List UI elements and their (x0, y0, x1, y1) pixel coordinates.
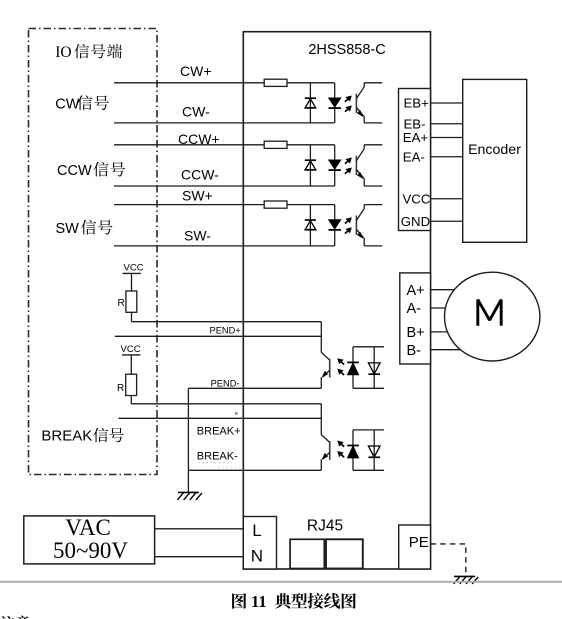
svg-text:BREAK-: BREAK- (197, 451, 238, 463)
svg-text:L: L (252, 521, 261, 540)
label CW- (182, 104, 210, 120)
LED CCW optocoupler input (329, 145, 341, 186)
svg-text:IO: IO (55, 44, 71, 61)
wire SW+ (114, 204, 335, 206)
cut-off text 注意 (0, 616, 29, 619)
RJ45 port 2 (326, 539, 363, 568)
resistor CCW input (264, 141, 287, 148)
pin label A- (407, 301, 422, 317)
label IO信号端 (55, 44, 122, 61)
terminal block encoder pins (399, 89, 431, 231)
wire VCC to encoder (431, 198, 463, 200)
dotted underline artifact (198, 463, 242, 468)
wire N (155, 556, 244, 558)
resistor R PEND pull-up (126, 291, 137, 312)
wire PEND+ (115, 335, 321, 337)
svg-text:A+: A+ (407, 283, 425, 299)
RJ45 port 1 (290, 539, 324, 568)
svg-text:R: R (117, 383, 124, 394)
VAC supply box (24, 516, 155, 564)
wire CW+ (114, 82, 335, 84)
svg-text:Encoder: Encoder (468, 142, 521, 158)
svg-text:PEND+: PEND+ (210, 325, 241, 335)
diode CW reverse-protection (305, 83, 317, 123)
wire EA- to encoder (431, 156, 463, 158)
encoder box (463, 79, 527, 242)
svg-text:VCC: VCC (403, 191, 431, 206)
svg-text:VAC: VAC (65, 515, 111, 540)
label CCW信号 (57, 162, 125, 179)
label SW- (184, 228, 211, 244)
terminal block L/N (243, 517, 276, 570)
wire R1 to PEND opto collector (132, 312, 322, 321)
light arrows CW optocoupler (345, 96, 352, 112)
light arrows PEND output optocoupler (337, 358, 344, 375)
label RJ45 (307, 518, 343, 535)
phototransistor CCW optocoupler (356, 145, 382, 186)
wire ground bus (187, 388, 189, 492)
pin label B- (407, 343, 422, 359)
LED BREAK output optocoupler (347, 430, 359, 470)
LED PEND output optocoupler (347, 347, 359, 389)
LED CW optocoupler input (329, 83, 341, 123)
pin label B+ (407, 325, 425, 341)
wire CCW+ (114, 144, 335, 146)
svg-text:2HSS858-C: 2HSS858-C (308, 42, 385, 58)
pin label VCC (403, 191, 431, 206)
diode PEND output protection (368, 347, 380, 389)
svg-text:EA-: EA- (403, 149, 425, 164)
pin label PE (409, 534, 429, 551)
pin label EB- (404, 116, 426, 131)
wire L (155, 528, 244, 530)
light arrows CCW optocoupler (345, 158, 352, 174)
svg-text:EB-: EB- (404, 116, 426, 131)
svg-text:BREAK+: BREAK+ (197, 426, 241, 438)
separator rule (0, 581, 562, 583)
wire PE to earth (dashed) (431, 544, 466, 576)
svg-text:EB+: EB+ (404, 96, 430, 111)
diode CCW reverse-protection (305, 145, 317, 186)
IO signal-source box (dash-dot border) (29, 29, 158, 475)
VCC symbol (PEND pull-up) (123, 263, 144, 292)
stray arrow artifact (235, 412, 239, 416)
svg-text:A-: A- (407, 301, 422, 317)
wire BREAK output rails (353, 430, 384, 470)
svg-text:BREAK: BREAK (41, 428, 92, 445)
light arrows SW optocoupler (345, 217, 352, 233)
label 2HSS858-C (308, 42, 385, 58)
phototransistor CW optocoupler (356, 83, 382, 123)
terminal block motor pins (400, 273, 431, 364)
label R (BREAK pull-up) (117, 383, 124, 394)
light arrows BREAK output optocoupler (337, 441, 344, 458)
phototransistor SW optocoupler (356, 205, 382, 246)
label SW信号 (56, 220, 113, 237)
svg-text:50~90V: 50~90V (53, 538, 128, 563)
wire A- to motor (431, 307, 463, 309)
svg-text:SW-: SW- (184, 228, 211, 244)
ground (IO common) (177, 492, 202, 500)
wire CCW- (114, 185, 335, 187)
pin label GND (401, 214, 430, 229)
label BREAK+ (197, 426, 241, 438)
pin label EA- (403, 149, 425, 164)
phototransistor BREAK output optocoupler (321, 404, 329, 471)
wire CW- (114, 122, 335, 124)
svg-text:CW: CW (55, 97, 79, 113)
svg-text:B-: B- (407, 343, 422, 359)
svg-text:PEND-: PEND- (211, 378, 240, 388)
wire BREAK+ (119, 417, 322, 419)
wire GND to encoder (431, 220, 463, 222)
wire R2 to BREAK opto collector (131, 396, 321, 404)
wire B- to motor (431, 349, 463, 351)
label 50~90V (53, 538, 128, 563)
caption 图 11 典型接线图 (232, 592, 356, 611)
wire EA+ to encoder (431, 137, 463, 139)
label CW信号 (55, 95, 108, 112)
wire B+ to motor (431, 331, 463, 333)
ground (PE earth) (454, 576, 479, 584)
phototransistor PEND output optocoupler (321, 322, 329, 389)
svg-text:GND: GND (401, 214, 430, 229)
wire BREAK- (188, 469, 321, 471)
svg-text:VCC: VCC (124, 263, 144, 274)
driver 2HSS858-C box (243, 32, 430, 569)
svg-text:EA+: EA+ (403, 130, 429, 145)
svg-text:RJ45: RJ45 (307, 518, 343, 535)
label PEND- (211, 378, 240, 388)
svg-text:N: N (251, 546, 263, 565)
svg-text:R: R (118, 298, 125, 309)
pin label EB+ (404, 96, 430, 111)
label BREAK- (197, 451, 238, 463)
wire EB+ to encoder (431, 102, 463, 104)
resistor SW input (264, 201, 287, 208)
svg-text:CCW: CCW (57, 163, 92, 179)
svg-text:VCC: VCC (121, 344, 141, 355)
diode BREAK output protection (368, 430, 380, 470)
pin label A+ (407, 283, 425, 299)
svg-text:SW+: SW+ (182, 188, 213, 204)
svg-text:CW-: CW- (182, 104, 210, 120)
LED SW optocoupler input (329, 205, 341, 246)
label BREAK信号 (41, 428, 123, 445)
wire PEND- (188, 387, 321, 389)
resistor CW input (264, 79, 287, 86)
svg-text:CW+: CW+ (180, 63, 212, 79)
svg-text:SW: SW (56, 221, 80, 237)
label CW+ (180, 63, 212, 79)
label VAC (65, 515, 111, 540)
label Encoder (468, 142, 521, 158)
terminal block PE (399, 525, 431, 569)
motor M (445, 272, 540, 361)
diode SW reverse-protection (305, 205, 317, 246)
resistor R BREAK pull-up (126, 374, 137, 395)
svg-text:CCW-: CCW- (181, 167, 219, 183)
wire EB- to encoder (431, 123, 463, 125)
pin label L (252, 521, 261, 540)
svg-text:PE: PE (409, 534, 429, 551)
VCC symbol (BREAK pull-up) (121, 344, 141, 374)
svg-text:B+: B+ (407, 325, 425, 341)
label SW+ (182, 188, 213, 204)
label R (PEND pull-up) (118, 298, 125, 309)
wire PEND output rails (353, 347, 384, 389)
pin label EA+ (403, 130, 429, 145)
wire A+ to motor (431, 289, 463, 291)
label CCW+ (178, 131, 220, 147)
label PEND+ (210, 325, 241, 335)
svg-text:11: 11 (251, 592, 267, 611)
pin label N (251, 546, 263, 565)
label CCW- (181, 167, 219, 183)
wire SW- (114, 245, 335, 247)
